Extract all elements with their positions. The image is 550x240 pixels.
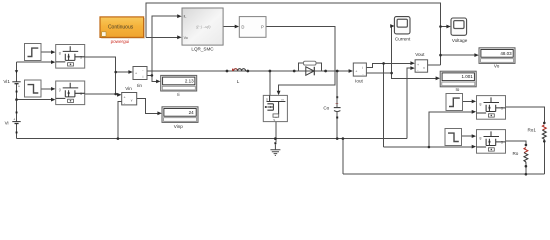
wire MOSFET1 source down <box>85 57 116 94</box>
wire Vin v output to Vinp display <box>137 99 159 114</box>
svg-text:powergui: powergui <box>111 39 130 44</box>
svg-text:Ii: Ii <box>177 92 179 97</box>
wire to Io display <box>392 73 437 78</box>
svg-text:Co: Co <box>323 106 329 111</box>
svg-text:Voltage: Voltage <box>452 38 468 43</box>
voltage source battery Vi1 <box>12 70 20 92</box>
display Io value 1.001 <box>440 71 476 87</box>
wire PWM P output to MOSFET gate <box>266 27 335 92</box>
wire rail riser <box>342 139 344 175</box>
svg-text:⋅∫(⋅⋅)→u(t): ⋅∫(⋅⋅)→u(t) <box>196 25 211 29</box>
svg-text:Continuous: Continuous <box>108 24 134 30</box>
svg-text:L: L <box>237 79 240 84</box>
node junction dots <box>15 25 545 175</box>
svg-text:Vinp: Vinp <box>174 124 184 129</box>
wire iL feedback to LQR_SMC <box>152 16 178 75</box>
current measurement Iout <box>353 63 366 77</box>
svg-text:P: P <box>261 24 264 29</box>
wire to Current scope <box>391 26 393 73</box>
wire load drop from output node <box>383 63 385 147</box>
op-amp U1 controller LQR_SMC <box>182 8 223 45</box>
svg-text:LQR_SMC: LQR_SMC <box>191 47 214 52</box>
wire MOSFET4 source to Ro <box>506 141 526 147</box>
svg-text:D: D <box>241 24 244 29</box>
display Vinp value 24 <box>162 107 198 123</box>
wire Ro1 bottom lead <box>543 140 545 174</box>
resistor Ro <box>524 148 528 164</box>
wire load branch up to MOSFET3 <box>429 112 473 147</box>
signal arrows <box>51 50 55 54</box>
wire Ro bottom lead <box>525 164 527 175</box>
scope Voltage <box>451 18 467 35</box>
svg-text:Current: Current <box>395 37 411 42</box>
display Vo value 48.03 <box>479 48 515 64</box>
svg-text:+: + <box>13 117 15 121</box>
pulse generator P2 <box>25 80 42 97</box>
wire Co bottom lead <box>336 118 338 138</box>
wire Vo feedback top loop <box>146 3 440 65</box>
transistor MOSFET1 <box>56 45 85 69</box>
inductor L <box>233 69 246 71</box>
wire pulse4 to MOSFET4 gate <box>462 135 473 137</box>
wire source column with batteries <box>16 62 18 139</box>
svg-text:+: + <box>124 95 126 99</box>
wire MOSFET1 drain from source column <box>17 61 52 63</box>
pulse generator P3 <box>446 94 463 111</box>
wire MOSFET2 source to Vin plus <box>85 93 118 96</box>
svg-text:Vin: Vin <box>125 86 132 91</box>
capacitor Co <box>334 96 341 118</box>
wire MOSFET source to ground <box>275 122 277 143</box>
wire Vout v output <box>428 64 441 66</box>
wire LQR_SMC to D block <box>223 26 235 28</box>
svg-text:Vo: Vo <box>494 63 500 68</box>
svg-text:2.13: 2.13 <box>185 78 194 83</box>
svg-text:Ro1: Ro1 <box>527 127 536 132</box>
wire main power bus L line <box>147 70 349 72</box>
transistor MOSFET4 <box>477 130 506 154</box>
powergui block <box>100 17 145 39</box>
wire bottom return rail <box>343 173 544 175</box>
svg-text:Ro: Ro <box>512 151 518 156</box>
PWM duty block D to P <box>239 17 266 38</box>
voltage measurement Vin <box>122 93 137 106</box>
svg-text:S: S <box>273 118 275 122</box>
wire to Vo display <box>441 54 476 56</box>
wire to Iin input <box>116 71 130 73</box>
svg-text:+: + <box>417 63 419 67</box>
wire to Ii display <box>152 75 157 81</box>
wire Iin i output <box>147 74 152 76</box>
wire Co top lead <box>336 71 338 96</box>
wire pulse2 to MOSFET2 gate <box>41 88 52 90</box>
resistor Ro1 <box>542 125 546 140</box>
current measurement Iin <box>133 67 147 80</box>
pulse generator P4 <box>445 129 462 146</box>
transistor MOSFET2 <box>56 81 85 105</box>
wire MOSFET3 source to Ro1 <box>506 107 545 124</box>
svg-text:Iout: Iout <box>355 79 363 84</box>
svg-text:+: + <box>355 70 357 74</box>
svg-text:Vi: Vi <box>5 121 9 126</box>
scope Current <box>394 17 410 34</box>
wire Vo into LQR_SMC input <box>146 36 178 38</box>
svg-text:Iin: Iin <box>137 83 142 88</box>
display Ii value 2.13 <box>161 75 197 91</box>
voltage measurement Vout <box>415 60 428 73</box>
svg-text:48.03: 48.03 <box>500 51 512 56</box>
svg-text:+: + <box>18 85 20 89</box>
wire MOSFET2 drain branch <box>17 99 52 101</box>
svg-text:+: + <box>135 72 137 76</box>
svg-text:Vo: Vo <box>184 36 188 40</box>
svg-text:1.001: 1.001 <box>462 74 474 79</box>
voltage source battery Vi <box>12 112 20 134</box>
diode D1 with snubber <box>299 61 322 75</box>
wire Vin minus to rail <box>118 102 122 139</box>
ground <box>270 142 280 155</box>
wire pulse3 to MOSFET3 gate <box>463 101 473 103</box>
transistor MOSFET3 <box>477 96 506 120</box>
svg-text:iL: iL <box>184 15 187 19</box>
wire MOSFET drain drop from bus <box>269 71 271 95</box>
svg-text:Io: Io <box>455 87 459 92</box>
wire bottom rail <box>17 138 407 140</box>
wire Iout top output to Vout plus <box>366 63 411 67</box>
svg-text:24: 24 <box>189 110 195 115</box>
wire rail up to Vout minus <box>407 68 411 139</box>
wire Iout bottom output <box>366 72 391 74</box>
wire pulse1 to MOSFET1 gate <box>41 51 52 53</box>
pulse generator P1 <box>25 44 42 61</box>
wire load line to MOSFET4 <box>384 146 473 148</box>
svg-text:Vi1: Vi1 <box>3 79 10 84</box>
transistor MOSFET switch Q5 <box>263 95 287 121</box>
svg-text:Vout: Vout <box>415 52 425 57</box>
wire to Voltage scope <box>441 26 448 28</box>
